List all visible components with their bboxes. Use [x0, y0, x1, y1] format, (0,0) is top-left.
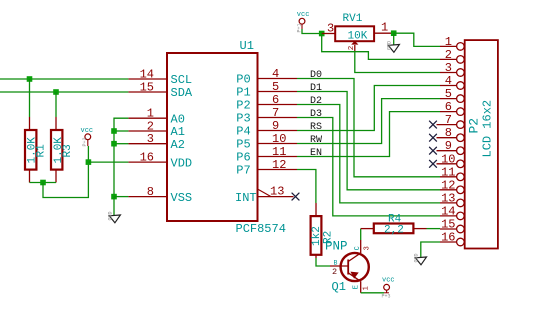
svg-text:3: 3 — [364, 246, 372, 250]
pin 15 number — [140, 80, 154, 94]
wire SCL bus — [0, 78, 128, 80]
pin 13 number — [441, 191, 455, 205]
svg-text:P2: P2 — [236, 99, 250, 113]
connector pin 12 stub — [440, 186, 464, 194]
svg-text:12: 12 — [441, 178, 455, 192]
no-connect X on INT pin — [292, 193, 299, 200]
svg-text:6: 6 — [272, 93, 279, 107]
Q1 collector pin — [360, 240, 362, 253]
pin 16 number — [441, 231, 455, 245]
svg-text:R3: R3 — [62, 144, 74, 157]
wire net D0 (P0 to LCD pin11) — [297, 79, 440, 177]
pin SDA (15) stub — [128, 91, 167, 93]
pin P1 (5) stub — [258, 91, 298, 93]
wire R4 to LCD pin15 — [427, 228, 441, 230]
pin A0 (1) stub — [128, 117, 167, 119]
svg-text:14: 14 — [441, 204, 455, 218]
wire net D2 (P2 to LCD pin13) — [297, 105, 440, 203]
pin 11 number — [441, 165, 455, 179]
net label D0 — [310, 70, 322, 81]
pin VDD (16) stub — [128, 161, 167, 163]
pin name C — [354, 246, 362, 250]
pin 2 number — [445, 48, 452, 62]
pin name SCL — [171, 73, 193, 87]
svg-text:11: 11 — [441, 165, 455, 179]
svg-text:GND: GND — [108, 211, 114, 220]
connector pin 8 stub — [437, 134, 465, 142]
svg-text:P1: P1 — [236, 86, 250, 100]
svg-text:P4: P4 — [236, 125, 250, 139]
svg-text:16: 16 — [140, 150, 154, 164]
node pot pin1/gnd junction — [391, 30, 397, 36]
pin 12 number — [272, 158, 286, 172]
pin 7 number — [445, 113, 452, 127]
connector pin 6 stub — [440, 108, 464, 116]
svg-text:P7: P7 — [236, 164, 250, 178]
svg-text:5: 5 — [445, 87, 452, 101]
svg-text:2: 2 — [348, 46, 356, 51]
svg-text:16: 16 — [441, 231, 455, 245]
pin 12 number — [441, 178, 455, 192]
pin 5 number — [445, 87, 452, 101]
svg-text:P0: P0 — [236, 73, 250, 87]
pin 6 number — [445, 100, 452, 114]
pin 9 number — [272, 119, 279, 133]
svg-text:SDA: SDA — [171, 86, 193, 100]
supply VCC symbol (top, feeds LCD power) — [297, 11, 310, 33]
wire vcc to RV1 pin3 — [302, 29, 322, 34]
connector pin 16 stub — [440, 238, 464, 246]
node A2 junction — [111, 141, 117, 147]
pin 1 number — [445, 35, 452, 49]
net label D2 — [310, 96, 322, 107]
pin 2 number (RV1 wiper) — [348, 46, 356, 51]
potentiometer RV1 body — [335, 26, 374, 41]
no-connect X on pin 8 — [430, 134, 437, 141]
connector pin 11 stub — [440, 173, 464, 181]
pin 7 number — [272, 106, 279, 120]
svg-text:vcc: vcc — [297, 11, 310, 19]
resistor R1 — [25, 117, 36, 183]
connector pin 4 stub — [440, 82, 464, 90]
connector pin 2 stub — [440, 56, 464, 64]
svg-text:15: 15 — [441, 218, 455, 232]
svg-text:3: 3 — [147, 132, 154, 146]
svg-text:VSS: VSS — [171, 191, 193, 205]
connector pin 10 stub — [437, 160, 465, 168]
RV1 value 10K — [348, 30, 368, 42]
P2 value label LCD 16x2 — [481, 100, 495, 158]
svg-text:U1: U1 — [240, 39, 254, 53]
svg-text:INT: INT — [235, 191, 257, 205]
svg-text:9: 9 — [272, 119, 279, 133]
pin name P1 — [236, 86, 250, 100]
pin P7 (12) stub — [258, 169, 298, 171]
pin A2 (3) stub — [128, 143, 167, 145]
svg-text:VDD: VDD — [171, 156, 193, 170]
pin P4 (9) stub — [258, 130, 298, 132]
pin name A2 — [171, 138, 185, 152]
IC U1 body — [167, 53, 258, 221]
pin 1 number (Q1 emitter) — [363, 286, 371, 290]
wire joining R1/R3 bottoms — [30, 182, 57, 184]
svg-text:3: 3 — [445, 61, 452, 75]
svg-text:GND: GND — [387, 41, 393, 50]
svg-text:5: 5 — [272, 80, 279, 94]
svg-text:D0: D0 — [310, 70, 322, 81]
net label D3 — [310, 109, 322, 120]
pin name P2 — [236, 99, 250, 113]
wire vcc to VDD pin — [88, 161, 128, 163]
RV1 pin 1 stub — [374, 32, 394, 34]
pin 5 number — [272, 80, 279, 94]
svg-text:2: 2 — [445, 48, 452, 62]
svg-text:RW: RW — [310, 135, 322, 146]
wire R2 to Q1 base — [316, 258, 330, 266]
pin 4 number — [445, 74, 452, 88]
svg-text:RS: RS — [310, 122, 322, 133]
connector pin 14 stub — [440, 212, 464, 220]
net label RW — [310, 135, 322, 146]
pin name A0 — [171, 112, 185, 126]
wire vcc to LCD pin2 (VDD) — [322, 34, 440, 60]
pin 4 number — [272, 67, 279, 81]
pin 3 number — [445, 61, 452, 75]
svg-text:GND: GND — [414, 253, 420, 262]
pin name P3 — [236, 112, 250, 126]
wire SDA to R3 — [55, 92, 57, 117]
svg-text:1k2: 1k2 — [311, 226, 323, 246]
pin 3 number (Q1 collector) — [364, 246, 372, 250]
svg-text:P+3: P+3 — [382, 294, 391, 300]
no-connect X on pin 10 — [430, 160, 437, 167]
pin 13 number — [270, 185, 284, 199]
node SCL/R1 junction — [27, 76, 33, 82]
pin 6 number — [272, 93, 279, 107]
pin P2 (6) stub — [258, 104, 298, 106]
pin INT clock slash — [258, 189, 272, 197]
wire RV1 wiper to LCD pin3 (VO) — [355, 52, 440, 72]
wire net D3 (P3 to LCD pin14) — [297, 118, 440, 216]
pin name P0 — [236, 73, 250, 87]
svg-text:15: 15 — [140, 80, 154, 94]
wire net D1 (P1 to LCD pin12) — [297, 92, 440, 190]
connector pin 15 stub — [440, 225, 464, 233]
svg-text:10: 10 — [441, 152, 455, 166]
pin name A1 — [171, 125, 185, 139]
pin P5 (10) stub — [258, 143, 298, 145]
svg-text:1: 1 — [363, 286, 371, 290]
net label EN — [310, 148, 322, 159]
svg-text:6: 6 — [445, 100, 452, 114]
svg-text:C: C — [354, 246, 362, 250]
pin name B — [334, 259, 338, 266]
RV1 wiper arrow (pin 2) — [351, 41, 358, 53]
svg-text:1: 1 — [445, 35, 452, 49]
svg-text:LCD 16x2: LCD 16x2 — [481, 100, 495, 158]
wire SDA bus — [0, 91, 128, 93]
svg-text:P3: P3 — [236, 112, 250, 126]
svg-text:P+2: P+2 — [82, 137, 88, 146]
pin 2 number — [147, 119, 154, 133]
wire net RW (P5 to LCD pin5) — [297, 99, 440, 144]
pin P6 (11) stub — [258, 156, 298, 158]
R1 value 1.0K — [27, 137, 39, 164]
pin 9 number — [445, 139, 452, 153]
transistor Q1 (PNP) — [341, 253, 369, 281]
svg-text:12: 12 — [272, 158, 286, 172]
svg-text:P5: P5 — [236, 138, 250, 152]
svg-text:4: 4 — [272, 67, 279, 81]
pin 1 number — [147, 107, 154, 121]
R2 value 1k2 — [311, 226, 323, 246]
svg-text:8: 8 — [147, 185, 154, 199]
pin 14 number — [140, 67, 154, 81]
node vcc/pot junction — [319, 31, 325, 37]
svg-text:13: 13 — [270, 185, 284, 199]
svg-text:7: 7 — [272, 106, 279, 120]
svg-text:E: E — [353, 285, 361, 289]
pin name INT — [235, 191, 257, 205]
node VSS junction — [111, 194, 117, 200]
svg-text:1: 1 — [381, 21, 388, 35]
pin 16 number — [140, 150, 154, 164]
connector P2 body — [465, 40, 498, 248]
pin name P5 — [236, 138, 250, 152]
Q1 base pin stub — [330, 265, 348, 267]
svg-text:3: 3 — [327, 22, 334, 36]
pin name P4 — [236, 125, 250, 139]
svg-text:D1: D1 — [310, 83, 322, 94]
node SDA/R3 junction — [53, 89, 59, 95]
Q1 value label PNP — [325, 240, 348, 254]
connector pin 9 stub — [437, 147, 465, 155]
wire emitter to vcc — [361, 292, 384, 294]
connector pin 7 stub — [437, 121, 465, 129]
svg-text:P2: P2 — [467, 118, 482, 134]
Q1 emitter pin — [360, 281, 362, 293]
connector pin 5 stub — [440, 95, 464, 103]
wire VSS junction to U1 — [114, 196, 128, 198]
pin 8 number — [147, 185, 154, 199]
svg-text:vcc: vcc — [382, 277, 395, 285]
pin 14 number — [441, 204, 455, 218]
svg-text:A2: A2 — [171, 138, 185, 152]
wire net EN (P6 to LCD pin6) — [297, 112, 440, 157]
wire A0/A1/A2 ground rail — [114, 118, 128, 196]
pin name VDD — [171, 156, 193, 170]
svg-text:D3: D3 — [310, 109, 322, 120]
wire pullups to vcc (U route) — [43, 146, 88, 198]
pin 3 number — [147, 132, 154, 146]
R4 value 2,2 — [384, 224, 404, 236]
wire VSS junction to ground — [113, 197, 115, 216]
pin INT (13) stub — [258, 196, 294, 198]
pin 10 number — [441, 152, 455, 166]
wire net RS (P4 to LCD pin4) — [297, 86, 440, 131]
Q1 reference label — [332, 280, 346, 294]
pin name P6 — [236, 151, 250, 165]
resistor R4 — [361, 224, 427, 234]
pin P3 (7) stub — [258, 117, 298, 119]
svg-text:8: 8 — [445, 126, 452, 140]
node pullup bottom junction — [40, 180, 46, 186]
svg-text:11: 11 — [272, 145, 286, 159]
supply VCC symbol (emitter) — [382, 277, 395, 300]
wire P7 to R2 — [297, 170, 316, 204]
connector pin 13 stub — [440, 199, 464, 207]
U1 value label PCF8574 — [236, 222, 286, 236]
svg-text:P6: P6 — [236, 151, 250, 165]
connector pin 3 stub — [440, 69, 464, 77]
R2 reference label — [323, 231, 335, 244]
pin name SDA — [171, 86, 193, 100]
pin name VSS — [171, 191, 193, 205]
svg-text:10K: 10K — [348, 30, 368, 42]
svg-text:Q1: Q1 — [332, 280, 346, 294]
svg-text:R1: R1 — [36, 144, 48, 158]
no-connect X on pin 7 — [430, 121, 437, 128]
R3 value 1.0K — [53, 137, 65, 164]
ground symbol (below VSS) — [108, 211, 121, 222]
node vcc/VDD branch junction — [86, 159, 92, 165]
ground symbol (LCD pin16) — [414, 253, 427, 264]
pin 11 number — [272, 145, 286, 159]
resistor R2 — [311, 203, 322, 258]
RV1 reference label — [343, 13, 363, 25]
pin 10 number — [272, 132, 286, 146]
P2 reference label — [467, 118, 482, 134]
supply VCC symbol (left, feeds VDD) — [81, 127, 94, 147]
ground symbol (below RV1 pin1) — [387, 41, 400, 52]
svg-text:14: 14 — [140, 67, 154, 81]
net label RS — [310, 122, 322, 133]
svg-text:2,2: 2,2 — [384, 224, 404, 236]
R4 reference label — [388, 214, 402, 226]
pin SCL (14) stub — [128, 78, 167, 80]
wire junction to ground — [393, 33, 395, 45]
node A1 junction — [111, 128, 117, 134]
wire pot pin1 to LCD pin1 — [394, 33, 440, 46]
connector pin 1 stub — [440, 43, 464, 51]
svg-text:10: 10 — [272, 132, 286, 146]
pin 8 number — [445, 126, 452, 140]
svg-text:EN: EN — [310, 148, 322, 159]
R1 reference label — [36, 144, 48, 158]
svg-text:PCF8574: PCF8574 — [236, 222, 286, 236]
pin P0 (4) stub — [258, 78, 298, 80]
svg-text:4: 4 — [445, 74, 452, 88]
svg-text:13: 13 — [441, 191, 455, 205]
pin VSS (8) stub — [128, 196, 167, 198]
svg-text:SCL: SCL — [171, 73, 193, 87]
pin 2 number (Q1 base) — [332, 267, 337, 277]
svg-text:PNP: PNP — [325, 240, 348, 254]
svg-text:9: 9 — [445, 139, 452, 153]
R3 reference label — [62, 144, 74, 157]
wire LCD pin16 to ground — [421, 242, 440, 258]
resistor R3 — [51, 117, 62, 183]
pin name P7 — [236, 164, 250, 178]
svg-text:B: B — [334, 259, 338, 266]
svg-text:D2: D2 — [310, 96, 322, 107]
svg-text:7: 7 — [445, 113, 452, 127]
svg-text:RV1: RV1 — [343, 13, 363, 25]
pin 1 number (RV1) — [381, 21, 388, 35]
RV1 pin 3 stub — [322, 33, 336, 35]
svg-text:2: 2 — [332, 267, 337, 277]
net label D1 — [310, 83, 322, 94]
pin 15 number — [441, 218, 455, 232]
wire SCL to R1 — [29, 79, 31, 117]
wire collector to R4 — [360, 229, 362, 240]
pin 3 number (RV1) — [327, 22, 334, 36]
no-connect X on pin 9 — [430, 147, 437, 154]
pin name E — [353, 285, 361, 289]
U1 reference label — [240, 39, 254, 53]
pin A1 (2) stub — [128, 130, 167, 132]
